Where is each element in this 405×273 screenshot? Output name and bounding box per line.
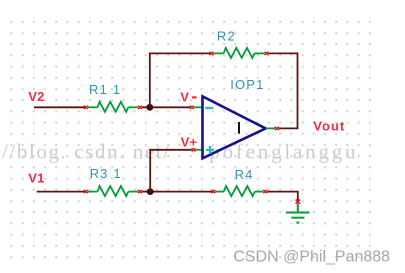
wire output segment bbox=[279, 127, 299, 129]
wire ground vertical stub bbox=[297, 192, 299, 201]
pin hotspot V- input bbox=[190, 106, 194, 109]
svg-text:V1: V1 bbox=[28, 170, 44, 185]
wire feedback top left segment bbox=[149, 52, 212, 54]
wire feedback vertical left bbox=[149, 53, 151, 108]
svg-text:R2: R2 bbox=[217, 29, 236, 44]
svg-text://blog. csdn. net/: //blog. csdn. net/ bbox=[2, 140, 171, 164]
resistor R4 bbox=[211, 186, 267, 196]
wire R4 to ground corner bbox=[267, 191, 298, 193]
op-amp internal bar mark bbox=[238, 122, 240, 134]
wire junction up to V+ bbox=[149, 150, 151, 192]
pin hotspot V+ input bbox=[192, 148, 196, 151]
svg-text:V+: V+ bbox=[181, 135, 198, 150]
wire R1 to V- pin bbox=[142, 106, 190, 108]
svg-text:Vout: Vout bbox=[313, 119, 345, 134]
svg-text:R4: R4 bbox=[235, 167, 254, 182]
ground symbol GND bbox=[286, 204, 309, 223]
resistor R2 bbox=[210, 48, 269, 58]
wire V2 input segment bbox=[34, 106, 86, 108]
pin lead output bbox=[266, 127, 275, 129]
svg-text:V: V bbox=[180, 90, 189, 105]
pin hotspot ground bbox=[296, 200, 300, 204]
svg-text:CSDN @Phil_Pan888: CSDN @Phil_Pan888 bbox=[233, 249, 390, 266]
junction node at V+ rail bbox=[147, 188, 154, 195]
pin hotspot output bbox=[275, 127, 279, 130]
wire V+ horizontal segment bbox=[149, 149, 191, 151]
op-amp U IOP1 triangle bbox=[203, 96, 266, 158]
wire V1 input segment bbox=[37, 191, 86, 193]
pin lead V+ input bbox=[196, 149, 202, 151]
pin lead V- input bbox=[194, 106, 202, 108]
resistor R1 bbox=[84, 102, 142, 112]
resistor R3 bbox=[84, 186, 142, 196]
wire R3 to R4 segment bbox=[142, 191, 214, 193]
op-amp non-inverting input plus mark bbox=[206, 146, 214, 154]
junction node at V- rail bbox=[146, 104, 153, 111]
svg-text:IOP1: IOP1 bbox=[230, 77, 264, 92]
svg-text:R3 1: R3 1 bbox=[90, 166, 122, 181]
wire feedback vertical right bbox=[297, 53, 299, 128]
op-amp inverting input minus mark bbox=[205, 107, 213, 109]
svg-text:R1 1: R1 1 bbox=[89, 82, 121, 97]
wire feedback top right segment bbox=[269, 52, 299, 54]
svg-text:V2: V2 bbox=[28, 89, 44, 104]
